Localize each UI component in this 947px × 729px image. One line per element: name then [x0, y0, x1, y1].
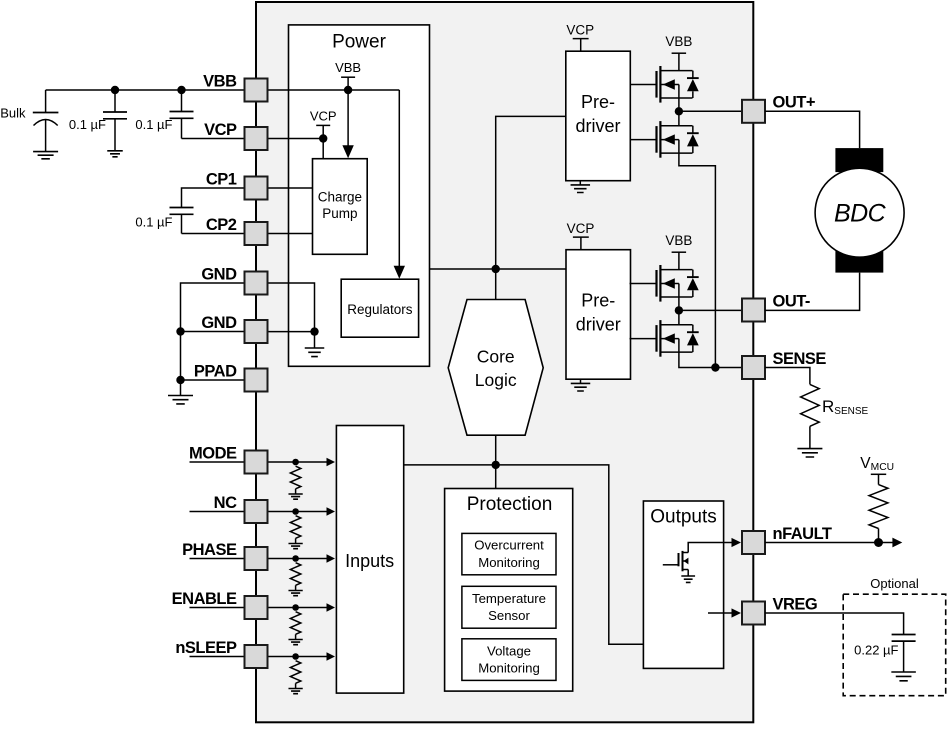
wire output node to Q2 (low-side A) drain — [678, 111, 680, 125]
junction node VBB-chargepump — [344, 86, 352, 94]
svg-text:Bulk: Bulk — [0, 106, 26, 121]
svg-text:Logic: Logic — [475, 370, 517, 390]
wire OUT- internal — [679, 309, 742, 311]
svg-text:Power: Power — [332, 32, 387, 53]
wire MODE to Inputs (arrow) — [268, 461, 328, 463]
resistor RSENSE — [801, 384, 820, 426]
pin CP2 — [245, 222, 268, 245]
pin VREG — [742, 602, 765, 625]
ground (pre-driver U3 (bottom)) — [580, 379, 582, 383]
pin nSLEEP external stub — [190, 656, 245, 658]
pin nFAULT — [742, 531, 765, 554]
wire Q4 source to sense node — [679, 339, 742, 368]
block Pre-driver U2 (top) — [566, 51, 631, 181]
svg-text:nSLEEP: nSLEEP — [175, 639, 237, 657]
pin OUT- — [742, 299, 765, 322]
svg-text:PPAD: PPAD — [194, 362, 237, 380]
block Inputs — [336, 426, 403, 694]
resistor pull-up (nFAULT) — [869, 485, 888, 529]
IC device body — [256, 2, 753, 722]
svg-text:GND: GND — [201, 265, 237, 283]
body diode (Q4 (low-side B)) — [687, 331, 699, 333]
svg-text:SENSE: SENSE — [773, 350, 827, 368]
wire VREG internal (arrow) — [708, 612, 732, 614]
wire VCP to charge pump — [322, 139, 324, 159]
wire Q3 (high-side B) source to output node — [678, 284, 680, 311]
svg-text:0.1 µF: 0.1 µF — [135, 117, 172, 132]
svg-text:Sensor: Sensor — [488, 608, 530, 623]
svg-text:BDC: BDC — [834, 200, 887, 228]
svg-text:Pre-: Pre- — [581, 291, 615, 311]
body diode (Q1 (high-side A)) — [687, 77, 699, 79]
svg-text:Protection: Protection — [467, 494, 553, 515]
block Protection — [445, 489, 573, 692]
transistor Q1 (high-side A) — [655, 71, 657, 98]
wire CP1 internal — [268, 187, 313, 189]
pin OUT+ — [742, 100, 765, 123]
wire NC to Inputs (arrow) — [268, 511, 328, 513]
wire VBB to regulators (arrow) — [398, 90, 400, 269]
pin ENABLE external stub — [190, 607, 245, 609]
transistor Q2 (low-side A) — [655, 126, 657, 153]
body diode (Q2 (low-side A)) — [687, 132, 699, 134]
svg-text:driver: driver — [576, 315, 621, 335]
ground (internal GND) — [314, 332, 316, 348]
svg-text:VBB: VBB — [335, 60, 361, 75]
wire GND1 internal — [268, 283, 315, 332]
svg-text:VCP: VCP — [204, 121, 237, 139]
wire riser to pre-driver 1 — [496, 116, 566, 269]
svg-text:VREG: VREG — [773, 595, 818, 613]
pin GND — [245, 272, 268, 295]
svg-text:Overcurrent: Overcurrent — [474, 538, 544, 553]
junction node PHASE — [292, 555, 299, 562]
junction node output A — [675, 107, 683, 115]
pin NC — [245, 500, 268, 523]
capacitor C2 0.1uF (VBB-VCP) — [181, 90, 183, 112]
wire VCP — [182, 138, 245, 140]
ground (Q5 source) — [687, 570, 689, 577]
transistor Q4 (low-side B) — [655, 325, 657, 352]
pin GND — [245, 320, 268, 343]
svg-text:OUT-: OUT- — [773, 292, 810, 310]
block Pre-driver U3 (bottom) — [566, 250, 631, 380]
pin PPAD — [245, 369, 268, 392]
ground (pull-down MODE) — [288, 494, 302, 499]
resistor pull-down (PHASE) — [290, 563, 300, 586]
junction node VBB-C2 — [177, 86, 185, 94]
wire nFAULT internal (arrow) — [688, 543, 732, 553]
junction node output B — [675, 306, 683, 314]
junction node VCP net — [492, 265, 500, 273]
svg-text:Charge: Charge — [318, 190, 362, 205]
svg-text:driver: driver — [575, 116, 620, 136]
wire PPAD external — [181, 379, 245, 381]
junction node nSLEEP — [292, 653, 299, 660]
block Power — [289, 25, 430, 366]
pin SENSE — [742, 356, 765, 379]
motor BDC terminal block bottom — [835, 249, 883, 273]
junction node VBB-C1 — [111, 86, 119, 94]
block Voltage Monitoring — [462, 639, 556, 681]
ground (pull-down ENABLE) — [288, 640, 302, 645]
pin VCP — [245, 127, 268, 150]
svg-text:Pre-: Pre- — [581, 92, 615, 112]
wire GND2 external — [181, 331, 245, 333]
svg-text:RSENSE: RSENSE — [822, 397, 869, 417]
resistor pull-down (ENABLE) — [290, 612, 300, 635]
optional dashed box — [843, 594, 946, 696]
junction node MODE — [292, 459, 299, 466]
capacitor C4 0.22uF (VREG) — [892, 634, 916, 636]
resistor pull-down (nSLEEP) — [290, 661, 300, 684]
capacitor C3 0.1uF (flying cap CP1-CP2) — [170, 207, 194, 209]
wire output node to Q4 (low-side B) drain — [678, 310, 680, 324]
svg-text:Monitoring: Monitoring — [478, 555, 540, 570]
svg-text:Monitoring: Monitoring — [478, 661, 540, 676]
wire PHASE to Inputs (arrow) — [268, 558, 328, 560]
wire gate Q2 (low-side A) — [630, 139, 657, 141]
ground (bulk cap) — [33, 152, 58, 159]
junction node SENSE — [711, 363, 719, 371]
svg-text:VBB: VBB — [665, 34, 692, 49]
svg-text:VCP: VCP — [310, 108, 337, 123]
motor BDC body — [815, 168, 904, 257]
svg-text:CP2: CP2 — [206, 216, 237, 234]
wire protection stub — [495, 465, 497, 489]
svg-text:OUT+: OUT+ — [773, 94, 815, 112]
svg-text:Temperature: Temperature — [472, 591, 546, 606]
svg-text:PHASE: PHASE — [182, 541, 237, 559]
wire OUT+ to motor — [765, 111, 860, 148]
ground (pull-down PHASE) — [288, 591, 302, 596]
svg-text:Core: Core — [477, 347, 515, 367]
wire gate Q4 (low-side B) — [630, 338, 657, 340]
block Outputs — [643, 501, 723, 668]
block Charge Pump — [313, 159, 368, 255]
resistor pull-down (MODE) — [290, 466, 300, 489]
pin ENABLE — [245, 596, 268, 619]
svg-text:Voltage: Voltage — [487, 643, 531, 658]
junction node ENABLE — [292, 604, 299, 611]
resistor pull-down (NC) — [290, 516, 300, 539]
junction node GND internal — [310, 327, 318, 335]
wire VBB internal — [268, 89, 400, 91]
capacitor C1 0.1uF (VBB bypass) — [114, 90, 116, 112]
pin NC external stub — [190, 511, 245, 513]
wire VCP internal — [268, 138, 324, 140]
svg-text:CP1: CP1 — [206, 170, 237, 188]
wire core logic top stub — [495, 269, 497, 300]
block Core Logic (hexagon) — [448, 300, 543, 436]
svg-text:Inputs: Inputs — [345, 551, 394, 571]
wire ENABLE to Inputs (arrow) — [268, 607, 328, 609]
junction node GND2 — [176, 327, 184, 335]
svg-text:VBB: VBB — [203, 72, 237, 90]
ground (PPAD) — [180, 380, 182, 396]
wire OUT+ internal — [679, 110, 742, 112]
wire OUT- to motor — [765, 273, 860, 311]
block Overcurrent Monitoring — [462, 533, 556, 574]
svg-text:0.22 µF: 0.22 µF — [854, 643, 898, 658]
wire Q1 (high-side A) source to output node — [678, 85, 680, 112]
wire SENSE external — [765, 368, 810, 385]
svg-text:Outputs: Outputs — [650, 507, 717, 528]
svg-text:VCP: VCP — [566, 22, 594, 37]
wire VREG external — [765, 613, 904, 635]
wire gate Q1 (high-side A) — [630, 84, 657, 86]
wire CP2 — [182, 233, 245, 235]
svg-text:nFAULT: nFAULT — [773, 525, 832, 543]
transistor Q5 (nFAULT open-drain) — [663, 564, 679, 566]
wire CP1 — [182, 188, 245, 208]
junction node NC — [292, 508, 299, 515]
svg-text:VMCU: VMCU — [860, 455, 894, 473]
motor BDC terminal block top — [835, 148, 883, 172]
body diode (Q3 (high-side B)) — [687, 276, 699, 278]
svg-text:VCP: VCP — [567, 221, 595, 236]
ground (RSENSE) — [797, 449, 822, 457]
wire regulators output to pre-drivers — [430, 268, 567, 270]
pin MODE — [245, 451, 268, 474]
ground (pull-down NC) — [288, 544, 302, 549]
junction node PPAD — [176, 376, 184, 384]
svg-text:VBB: VBB — [665, 233, 692, 248]
ground (C1) — [107, 151, 123, 157]
ground (C4) — [891, 672, 916, 681]
pin PHASE — [245, 547, 268, 570]
ground (pull-down nSLEEP) — [288, 689, 302, 694]
block Regulators — [341, 279, 418, 337]
junction node signal bus — [492, 461, 500, 469]
pin CP1 — [245, 177, 268, 200]
svg-text:0.1 µF: 0.1 µF — [135, 215, 172, 230]
svg-text:MODE: MODE — [189, 444, 237, 462]
wire signal bus Inputs to Outputs — [404, 465, 644, 644]
wire GND2 internal — [268, 331, 315, 333]
wire GND1 external — [181, 283, 245, 380]
svg-text:Optional: Optional — [870, 576, 919, 591]
svg-text:NC: NC — [214, 494, 237, 512]
svg-text:ENABLE: ENABLE — [172, 590, 237, 608]
ground (pre-driver U2 (top)) — [579, 181, 581, 185]
wire core logic bottom stub — [495, 435, 497, 465]
block Temperature Sensor — [462, 586, 556, 628]
pin VBB — [245, 79, 268, 102]
svg-text:0.1 µF: 0.1 µF — [69, 117, 106, 132]
transistor Q3 (high-side B) — [655, 270, 657, 297]
svg-text:Regulators: Regulators — [347, 302, 413, 317]
pin MODE external stub — [190, 461, 245, 463]
wire VBB rail — [46, 89, 245, 91]
wire Q2 source to sense net — [679, 140, 716, 368]
wire CP2 internal — [268, 233, 313, 235]
svg-text:GND: GND — [201, 314, 237, 332]
junction node VCP — [319, 134, 327, 142]
wire nFAULT external (arrow) — [878, 529, 880, 543]
wire VBB to charge pump (arrow) — [347, 90, 349, 148]
capacitor bulk (polarized) — [45, 90, 47, 113]
junction node nFAULT — [874, 538, 883, 547]
pin nSLEEP — [245, 645, 268, 668]
svg-text:Pump: Pump — [322, 206, 357, 221]
wire nSLEEP to Inputs (arrow) — [268, 656, 328, 658]
pin PHASE external stub — [190, 558, 245, 560]
wire gate Q3 (high-side B) — [630, 283, 657, 285]
